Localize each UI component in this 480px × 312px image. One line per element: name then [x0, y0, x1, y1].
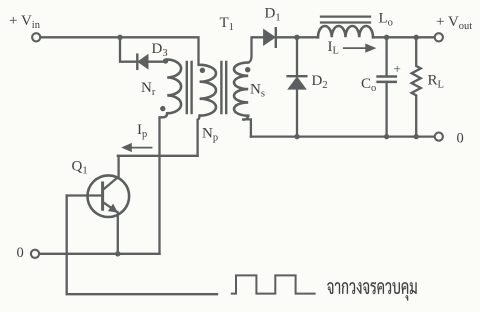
node Np top dot: [200, 68, 205, 73]
diode D1: [264, 30, 275, 45]
wire D3 branch down: [120, 37, 136, 61]
svg-text:0: 0: [17, 245, 24, 261]
wire collector to Np bottom: [118, 155, 198, 157]
waveform square pulse: [232, 275, 315, 293]
transformer T1 core: [187, 62, 226, 113]
diode D2: [296, 37, 298, 75]
node RL bottom dot: [414, 134, 419, 139]
svg-text:+: +: [394, 61, 401, 76]
wire Ns bottom hook: [242, 116, 251, 137]
label Thai caption from control circuit: [327, 282, 417, 301]
inductor Lo: [318, 26, 373, 37]
node Nr top dot: [163, 58, 168, 63]
node Lo/Co junction: [384, 35, 389, 40]
wire D3 to Nr: [148, 61, 166, 63]
node 0 output terminal: [435, 133, 443, 141]
wire Q1 base: [67, 194, 101, 196]
transistor Q1 collector: [104, 156, 119, 190]
transistor Q1 body: [88, 175, 130, 217]
node D2 bottom dot: [294, 134, 299, 139]
wire base drive down and right: [67, 196, 217, 295]
node Ns top dot: [245, 67, 250, 72]
node junction Vin/D3: [117, 35, 122, 40]
arrow Ip: [121, 143, 152, 152]
wire Np bottom to collector line: [198, 116, 200, 156]
capacitor Co: [385, 37, 387, 76]
node +Vin terminal: [32, 33, 40, 41]
node +Vout terminal: [435, 33, 443, 41]
winding Np: [200, 65, 216, 116]
winding Ns: [234, 63, 248, 116]
node Co bottom dot: [384, 134, 389, 139]
node 0 input terminal: [31, 250, 39, 258]
node D1/D2/Lo junction: [294, 35, 299, 40]
arrow IL: [343, 44, 377, 53]
resistor RL: [412, 37, 421, 136]
node RL top junction: [414, 35, 419, 40]
wire D1 to Lo: [276, 36, 318, 38]
winding Nr: [167, 60, 181, 114]
wire Ns top to D1: [248, 37, 263, 62]
node Nr bottom dot: [160, 106, 165, 111]
emitter arrowhead: [108, 204, 118, 213]
diode D3: [136, 55, 138, 69]
wire Nr bottom to 0 rail: [160, 113, 168, 254]
wire output bottom rail: [251, 135, 435, 137]
wire 0 rail left: [39, 253, 159, 255]
node emitter junction dot: [115, 251, 120, 256]
wire top rail Vin to Np top: [41, 37, 199, 65]
inductor Lo core bars: [321, 17, 370, 23]
svg-text:0: 0: [457, 131, 464, 147]
wire Lo to +Vout terminal: [373, 36, 435, 38]
transistor Q1 base bar: [101, 183, 104, 209]
transistor Q1 emitter: [104, 203, 118, 254]
